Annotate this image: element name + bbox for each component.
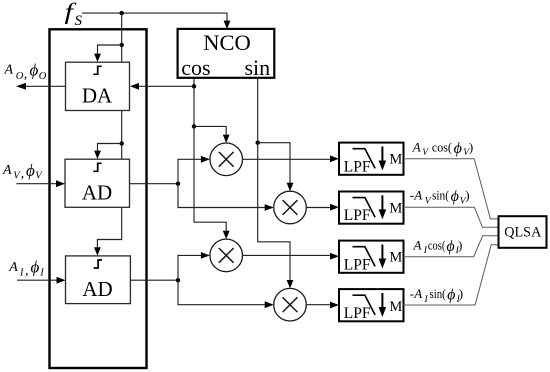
DA block bbox=[66, 62, 130, 110]
LPF3 block bbox=[339, 241, 404, 274]
arrow AI into AD2 bbox=[57, 277, 66, 284]
wire AD2 output bbox=[130, 279, 178, 281]
svg-text:cos: cos bbox=[181, 55, 210, 80]
svg-text:-AVsin(ϕV): -AVsin(ϕV) bbox=[410, 188, 470, 207]
svg-text:AV,ϕV: AV,ϕV bbox=[2, 161, 43, 182]
node AD1 branch bbox=[176, 182, 180, 186]
wire cos to DA bbox=[137, 85, 194, 87]
node fS junction bbox=[120, 11, 124, 15]
arrow clock into AD2 bbox=[94, 247, 101, 255]
wire AD1 up to mult1 bbox=[178, 159, 203, 183]
multiplier M4 bbox=[274, 288, 307, 321]
svg-text:S: S bbox=[75, 13, 83, 29]
svg-text:LPF: LPF bbox=[344, 158, 371, 175]
node AD2 branch bbox=[176, 278, 180, 282]
LPF1 block bbox=[339, 143, 404, 176]
arrow into mult3 top bbox=[223, 231, 230, 239]
wire LPF4 to QLSA bbox=[404, 245, 499, 305]
wire clock vertical upper bbox=[121, 13, 123, 62]
arrow clock into AD1 bbox=[94, 151, 101, 159]
svg-text:DA: DA bbox=[82, 83, 113, 107]
wire AI input bbox=[17, 279, 59, 281]
QLSA block bbox=[499, 216, 547, 248]
wire DA output left bbox=[24, 85, 66, 87]
arrow into mult4 left bbox=[265, 301, 274, 308]
svg-text:AI,ϕI: AI,ϕI bbox=[8, 258, 44, 279]
wire sin vertical to mult4 bbox=[258, 143, 290, 283]
wire clock vertical mid bbox=[121, 111, 123, 160]
arrow DA output bbox=[16, 83, 26, 90]
arrow into mult4 top bbox=[287, 280, 294, 288]
arrow into LPF3 bbox=[330, 253, 339, 260]
arrow into mult3 left bbox=[201, 252, 210, 259]
wire sin vertical bbox=[257, 78, 259, 143]
svg-text:sin: sin bbox=[245, 55, 271, 80]
svg-text:QLSA: QLSA bbox=[504, 225, 542, 241]
svg-text:M: M bbox=[389, 299, 402, 315]
wire mult4 to LPF4 bbox=[306, 304, 332, 306]
LPF2 block bbox=[339, 192, 404, 225]
wire sin to mult2 bbox=[258, 143, 290, 186]
arrow clock into DA bbox=[94, 54, 101, 62]
clock glyph DA bbox=[93, 66, 101, 74]
svg-text:AVcos(ϕV): AVcos(ϕV) bbox=[412, 140, 473, 159]
svg-text:LPF: LPF bbox=[344, 305, 371, 322]
svg-text:M: M bbox=[389, 200, 402, 216]
wire mult1 to LPF1 bbox=[243, 158, 333, 160]
svg-text:LPF: LPF bbox=[344, 207, 371, 224]
node sin-mult2 tap bbox=[256, 141, 260, 145]
wire mult3 to LPF3 bbox=[243, 254, 333, 256]
wire clock jog DA bbox=[98, 45, 122, 56]
arrow into LPF2 bbox=[330, 204, 339, 211]
wire cos vertical to mult3 bbox=[194, 126, 226, 233]
wire LPF2 to QLSA bbox=[404, 207, 499, 227]
wire AD1 output bbox=[130, 183, 179, 185]
LPF4 block bbox=[339, 289, 404, 322]
svg-text:AD: AD bbox=[82, 277, 112, 301]
svg-text:-AIsin(ϕI): -AIsin(ϕI) bbox=[410, 286, 463, 305]
multiplier M1 bbox=[210, 143, 243, 176]
wire AD2 down to mult4 bbox=[178, 280, 267, 305]
wire cos to mult1 bbox=[194, 126, 226, 137]
multiplier M3 bbox=[210, 239, 243, 272]
arrow into mult1 top bbox=[223, 135, 230, 143]
arrow into NCO top bbox=[224, 21, 231, 30]
NCO block bbox=[178, 29, 275, 78]
wire AV input bbox=[17, 183, 59, 185]
wire clock jog AD1 bbox=[98, 144, 122, 154]
arrow into LPF4 bbox=[330, 302, 339, 309]
arrow AV into AD1 bbox=[56, 180, 65, 187]
arrow into mult2 top bbox=[287, 183, 294, 191]
arrow into LPF1 bbox=[330, 155, 339, 162]
svg-text:AD: AD bbox=[82, 180, 112, 204]
outer sampling box bbox=[50, 29, 147, 368]
multiplier M2 bbox=[274, 191, 307, 224]
AD1 block bbox=[65, 159, 130, 207]
arrow into mult2 left bbox=[265, 204, 274, 211]
wire LPF3 to QLSA bbox=[404, 236, 499, 257]
wire mult2 to LPF2 bbox=[306, 207, 332, 209]
AD2 block bbox=[66, 256, 131, 304]
node cos-DA tap bbox=[192, 84, 196, 88]
node clock DA tap bbox=[120, 43, 124, 47]
svg-text:LPF: LPF bbox=[344, 256, 371, 273]
wire fS horizontal bbox=[82, 13, 227, 24]
node clock AD1 tap bbox=[120, 141, 124, 145]
svg-text:M: M bbox=[389, 151, 402, 167]
svg-text:AO,ϕO: AO,ϕO bbox=[4, 60, 47, 82]
arrow into mult1 left bbox=[201, 156, 210, 163]
svg-text:AIcos(ϕI): AIcos(ϕI) bbox=[413, 238, 463, 257]
svg-text:M: M bbox=[389, 249, 402, 265]
svg-text:NCO: NCO bbox=[203, 30, 251, 55]
wire AD2 up to mult3 bbox=[178, 255, 203, 280]
label fS bbox=[65, 0, 77, 24]
clock glyph AD2 bbox=[94, 260, 102, 268]
wire cos vertical bbox=[193, 78, 195, 127]
clock glyph AD1 bbox=[93, 163, 101, 171]
wire AD1 down to mult2 bbox=[178, 184, 267, 208]
arrow into DA right bbox=[130, 83, 139, 90]
wire clock vertical lower bbox=[97, 207, 121, 250]
node cos-mult1 tap bbox=[192, 124, 196, 128]
wire LPF1 to QLSA bbox=[404, 159, 499, 219]
